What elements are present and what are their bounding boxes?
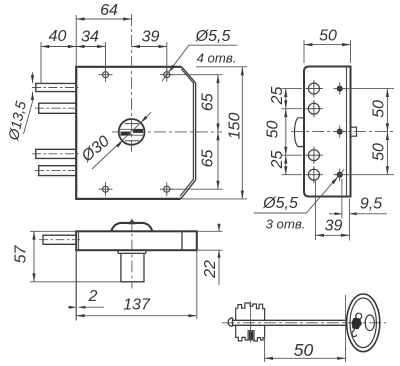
dim line 25-50-25	[285, 89, 287, 175]
side circle 2	[305, 100, 323, 117]
key centerline	[222, 322, 386, 324]
bolt (bottom view)	[43, 235, 76, 244]
key tip	[228, 318, 233, 327]
key bow ornament knot	[352, 318, 362, 329]
cylinder dome	[111, 223, 152, 231]
arrows dia30	[116, 141, 123, 147]
arrows 57	[32, 231, 35, 239]
key bow ear	[365, 315, 374, 331]
dim line 50 top	[304, 44, 351, 46]
ext hole bottom 65	[171, 188, 223, 190]
ext 39 right	[348, 199, 350, 241]
keyway chord dashes	[125, 124, 139, 141]
svg-text:9,5: 9,5	[360, 195, 382, 212]
cylinder circle d30	[119, 119, 145, 145]
arrows 25 upper	[284, 89, 287, 97]
bolt 2	[35, 103, 79, 113]
svg-text:50: 50	[370, 143, 387, 161]
ext line hole 34	[105, 42, 107, 71]
side circle 1	[305, 80, 323, 97]
arrows dia13.5	[31, 75, 34, 83]
svg-text:25: 25	[269, 151, 286, 170]
dim line 2	[68, 306, 104, 308]
ext key 50 left	[264, 335, 266, 362]
bar divider right	[181, 231, 183, 250]
svg-text:3 отв.: 3 отв.	[266, 216, 306, 231]
hole top-right	[160, 68, 174, 82]
svg-text:137: 137	[123, 296, 151, 313]
ext 57 bottom	[30, 281, 121, 283]
side plate outline	[304, 67, 351, 197]
dim line 39	[316, 234, 350, 236]
svg-text:22: 22	[202, 260, 219, 279]
key bow inner	[350, 298, 376, 348]
svg-text:39: 39	[325, 217, 343, 234]
svg-text:2: 2	[88, 288, 98, 305]
ext line hole 39	[166, 42, 168, 71]
bolt centerline (bottom view)	[39, 239, 80, 241]
arrows key 50	[265, 357, 273, 360]
hole bottom-left	[99, 182, 113, 196]
front plate outline	[76, 67, 181, 199]
vertical centerline of cylinder	[131, 14, 133, 152]
arrows 137	[76, 314, 84, 317]
ext 50 top right	[350, 40, 352, 63]
ext 22 bottom	[197, 249, 223, 251]
arrows 64	[76, 17, 84, 20]
key bow outer	[347, 294, 380, 352]
svg-text:65: 65	[199, 93, 216, 111]
arrows 39	[132, 45, 140, 48]
keyhole housing body	[121, 253, 144, 281]
svg-text:50: 50	[264, 121, 281, 139]
svg-text:50: 50	[370, 100, 387, 118]
dia5.5 leader side	[254, 170, 344, 213]
dim line 9.5	[329, 213, 387, 215]
hole bottom-right	[160, 182, 174, 196]
side circle 4	[305, 166, 323, 183]
dim line 150	[241, 67, 243, 199]
dim line 39	[132, 46, 167, 48]
front plate chamfered right edge	[181, 67, 196, 199]
dim line 50-50 right	[386, 89, 388, 175]
ext 57 top	[30, 230, 76, 232]
side pin 1	[334, 82, 347, 94]
ext 137 right	[196, 250, 198, 319]
bolt 3	[32, 149, 79, 158]
dim line 65-65	[217, 75, 219, 190]
keyway dark bar right	[133, 129, 143, 133]
ext 39 left	[315, 180, 317, 240]
arrows 150	[241, 67, 244, 75]
key bow ornament tail	[352, 313, 358, 336]
dim line 137	[76, 315, 197, 317]
cylinder dome centerline tick	[128, 219, 136, 224]
svg-text:65: 65	[199, 150, 216, 168]
dim line 57	[33, 231, 35, 281]
arrows 40	[41, 45, 49, 48]
arrow dia5.5 side leader	[331, 177, 338, 185]
side tab	[351, 127, 357, 136]
svg-text:4 отв.: 4 отв.	[197, 50, 237, 65]
arrows 25 lower	[284, 155, 287, 163]
key bow ornament head	[356, 313, 362, 319]
keyhole housing lip	[118, 250, 146, 253]
ext line 40 left	[40, 42, 42, 84]
side plate inner line	[346, 67, 348, 197]
arrows 50 right lower	[386, 132, 389, 140]
key bit top profile	[236, 303, 265, 320]
key ward slot fill	[249, 331, 254, 339]
arrows 65 bottom	[216, 132, 219, 140]
dia5.5 leader front	[162, 45, 238, 81]
front plate inner flange line	[180, 69, 193, 196]
ext 50 top left	[303, 40, 305, 63]
ext 137 left	[75, 250, 77, 320]
faceplate line	[78, 231, 80, 250]
ext hole right 65	[171, 74, 223, 76]
ext lines left holes	[282, 89, 303, 175]
arrows 34	[76, 45, 84, 48]
svg-text:34: 34	[81, 28, 99, 45]
ext 9.5 left	[341, 179, 343, 219]
svg-text:40: 40	[49, 28, 67, 45]
arrows 50 left	[284, 109, 287, 117]
ext plate top right 150	[196, 66, 247, 68]
dia30 leader	[92, 112, 151, 169]
dim line 22	[218, 224, 220, 286]
arrows 39	[316, 234, 324, 237]
bolt 1	[32, 83, 79, 91]
hole top-left	[99, 68, 113, 82]
dia13.5 dim line	[24, 72, 33, 134]
key shaft	[233, 320, 347, 325]
arrow dia5.5 front	[169, 65, 175, 72]
arrows 65 top	[216, 75, 219, 83]
dim line 40-34	[41, 46, 106, 48]
keyway dark bar left	[121, 132, 131, 136]
ext plate bottom right 150	[182, 198, 247, 200]
arrows 50 right upper	[386, 89, 389, 97]
bottom view vertical centerline	[131, 219, 133, 289]
dim line 64	[76, 18, 131, 20]
svg-text:39: 39	[142, 28, 160, 45]
ext key 50 right	[345, 295, 347, 362]
horizontal centerline of cylinder	[112, 131, 222, 133]
svg-text:50: 50	[294, 340, 314, 360]
svg-text:25: 25	[269, 87, 286, 106]
ext 22 top	[197, 230, 223, 232]
svg-text:Ø5,5: Ø5,5	[262, 195, 298, 212]
arrows 2	[69, 306, 76, 309]
arrows 50 top	[304, 43, 312, 46]
side circle 3	[305, 147, 323, 164]
side horizontal centerline	[291, 131, 394, 133]
svg-text:50: 50	[319, 27, 337, 44]
key ward slot outline	[248, 331, 254, 340]
side pin 2	[334, 125, 347, 137]
arrows 22	[217, 224, 220, 231]
svg-text:Ø5,5: Ø5,5	[195, 28, 231, 45]
svg-text:150: 150	[226, 113, 243, 140]
bolt 4	[35, 166, 79, 176]
keyway slot outline	[120, 129, 144, 135]
ext right pins	[347, 89, 394, 175]
svg-text:64: 64	[100, 2, 118, 19]
arrows 9.5	[335, 212, 342, 215]
case bar	[76, 231, 197, 250]
dim line key 50	[265, 357, 346, 359]
side pin 3	[334, 169, 347, 181]
ext line plate left top	[75, 15, 77, 67]
key bit centerline	[250, 302, 252, 343]
side spring bump	[295, 118, 304, 147]
svg-text:57: 57	[13, 245, 30, 264]
key bit bottom profile	[236, 325, 265, 341]
